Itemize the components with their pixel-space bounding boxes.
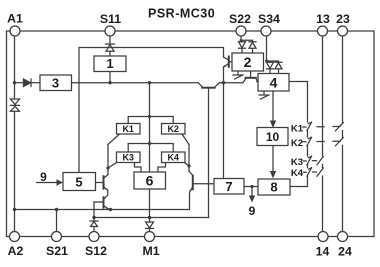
node line2 M1 [148,216,151,219]
terminal circles [10,26,348,242]
svg-text:24: 24 [338,245,352,259]
node bus S21 [55,208,58,211]
wire TL emitter down [107,191,109,196]
box 6 [134,172,166,189]
wire K3 to left rail [108,163,117,169]
TVS diode on A1 wire [11,99,20,111]
box 10 [257,128,288,146]
contact K3 on line 13 [317,157,323,165]
terminal 23 [338,26,348,36]
svg-text:14: 14 [316,245,330,259]
svg-text:K2: K2 [167,124,179,134]
node bus A2 wire [13,208,16,211]
arrow box 10 to box 8 [272,146,274,172]
relay coil K4 [162,152,186,163]
svg-text:7: 7 [225,179,232,194]
node K4 rail join [187,164,190,167]
box 1 [94,56,126,72]
terminal S12 [89,232,99,242]
contact K4 chain [307,168,312,177]
box 3 [40,75,72,91]
diode to box 3 [24,79,32,87]
linkage dashes K2 row [303,140,340,143]
terminal S22 [236,26,246,36]
svg-text:K4: K4 [291,168,304,179]
transistor TR [189,171,214,210]
terminal A1 [10,26,20,36]
ground under box 4 [259,91,269,99]
wire diode to box 3 [31,82,41,84]
wire T2 base stub down [208,88,210,218]
wire S11 [109,36,111,44]
wire K2 to right rail [182,134,189,145]
svg-text:K3: K3 [291,157,303,168]
svg-text:13: 13 [316,12,330,26]
box 8 [258,179,290,195]
svg-text:8: 8 [270,180,277,195]
wire T1 emitter down to box 7 [223,67,225,179]
wire K4 to right rail [185,163,190,167]
svg-text:S11: S11 [100,12,121,26]
svg-text:1: 1 [106,56,113,71]
terminal S34 [261,26,271,36]
svg-text:S34: S34 [258,12,280,26]
arrow box 4 to box 10 [272,91,274,121]
contact K2 on line 23 [336,138,344,146]
svg-text:2: 2 [244,54,252,70]
box 7 [214,179,244,195]
terminal A2 [10,232,20,242]
svg-text:4: 4 [270,74,278,90]
svg-text:K1: K1 [122,124,134,134]
wire box 6 to M1 [149,189,151,222]
svg-text:K4: K4 [167,152,179,162]
box 2 [232,53,264,71]
boxes [40,53,290,195]
wire T3 base to box 2 [250,71,252,78]
wire inner loop top [79,48,224,173]
node S22 diode bar [240,39,243,42]
wire box 1 to line [109,72,111,83]
node central junction [148,81,151,84]
wire monitor line2 [94,217,209,219]
wire K1 to left rail [108,134,120,145]
wire rung 2 [128,144,173,153]
svg-text:PSR-MC30: PSR-MC30 [148,7,215,21]
linkage dashes K1 row [303,126,340,129]
svg-text:K3: K3 [122,152,134,162]
node output 9 junction [250,185,253,188]
wire K4 to box 6 [158,163,166,173]
terminal 13 [318,26,328,36]
svg-text:9: 9 [40,170,47,184]
wire left rail [107,145,109,175]
svg-text:6: 6 [146,173,154,189]
contact K2 chain [307,137,312,146]
wire right rail [188,145,190,172]
node S34 diode bar [265,60,268,63]
box 4 [258,74,289,92]
svg-text:10: 10 [266,130,280,144]
relay coil K1 [117,124,141,135]
wire S34 [266,36,268,61]
wire terminal 23 to contacts [342,36,344,232]
node K3 rail join [106,166,109,169]
node T1 line junction [222,81,225,84]
node box1 bottom junction [108,81,111,84]
wire S22 [240,36,242,41]
arrow input 9 to box 5 [37,182,58,184]
transistor TL2 lower [94,195,111,210]
wire A1 junction to diode [15,82,24,84]
svg-text:K2: K2 [291,138,303,149]
transistor T3 [224,78,261,83]
wire A1 to A2 [14,36,16,232]
svg-text:S21: S21 [46,244,68,258]
terminal S21 [52,232,62,242]
transistor TL upper [96,175,109,191]
wire terminal 13 to contacts [322,36,324,232]
diode under S11 [106,44,115,51]
box 5 [63,173,96,191]
svg-text:K1: K1 [291,123,304,134]
arrow output 9 [251,187,253,197]
contact K1 on line 23 [336,123,344,131]
wire box 7 to box 8 [244,186,258,188]
wire box 4 to contact chain [289,82,308,123]
wire central down to ladder [149,83,151,172]
node line2 S12 [92,216,95,219]
contact K1 chain [307,122,312,131]
wire S12 up to TL2 base [93,202,95,221]
outer frame [7,31,375,237]
wire M1 diode to terminal [149,228,151,231]
node A1 branch junction [13,81,16,84]
svg-text:S22: S22 [229,12,251,26]
diode M1 [146,222,154,228]
ground under box 2 [233,71,243,79]
contact K4 on line 13 [317,168,323,176]
transistor T2 [198,83,223,88]
svg-text:A1: A1 [7,12,23,26]
svg-text:5: 5 [75,174,82,189]
wire contact chain [290,131,308,187]
contact K3 chain [307,156,312,165]
svg-text:M1: M1 [142,244,159,258]
svg-text:9: 9 [249,204,256,218]
relay coil K2 [162,124,186,135]
node TL2 emitter bus [109,208,112,211]
terminal M1 [145,232,155,242]
wire K3 to box 6 [135,163,142,173]
transistor T1 [224,57,233,67]
linkage dashes K3 row [304,160,317,162]
wire bottom bus [15,209,190,211]
svg-text:S12: S12 [85,244,107,258]
svg-text:3: 3 [52,76,59,91]
svg-text:A2: A2 [8,244,24,258]
diode pair above box 2 [241,40,253,41]
node rung2 [148,142,151,145]
terminal 24 [338,232,348,242]
node rung1 [148,115,151,118]
svg-text:23: 23 [336,12,350,26]
wire box 3 output line [72,82,199,84]
diode S12 [90,221,98,227]
relay coil K3 [117,152,141,163]
wire rung 1 [128,117,173,124]
terminal S11 [105,26,115,36]
wire diode to box 1 [109,51,111,56]
wire S12 diode to terminal [93,227,95,232]
terminal 14 [318,232,328,242]
wire S21 [56,210,58,232]
diode pair above box 4 [267,61,279,62]
linkage dashes K4 row [304,171,317,173]
